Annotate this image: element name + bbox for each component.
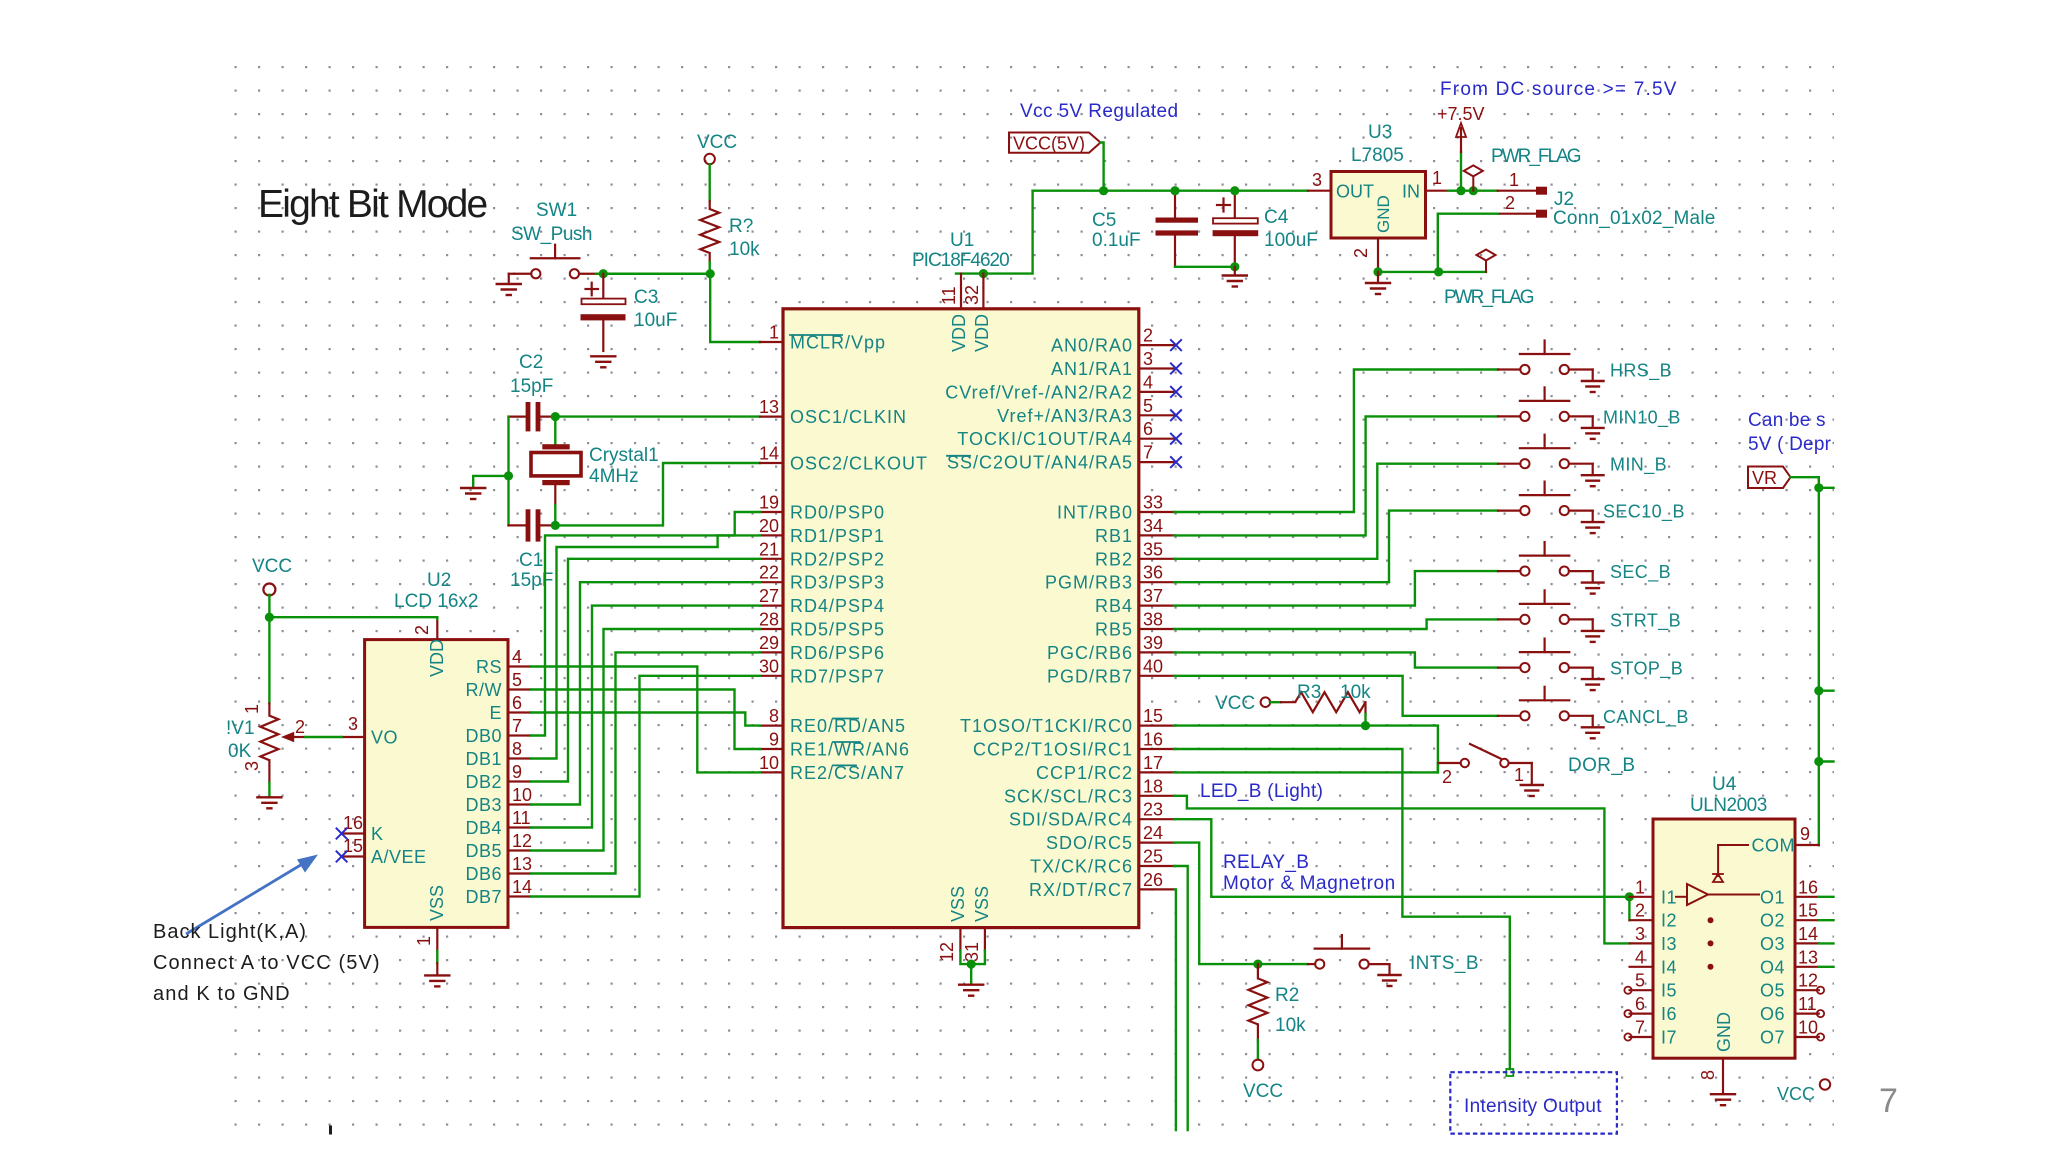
svg-text:13: 13	[512, 854, 532, 874]
U1 pin name RD7/PSP7	[790, 666, 885, 686]
svg-text:SW_Push: SW_Push	[511, 224, 592, 245]
svg-text:0.1uF: 0.1uF	[1092, 230, 1141, 251]
svg-text:Crystal1: Crystal1	[589, 445, 659, 466]
button MIN10_B	[1498, 387, 1604, 439]
svg-text:C2: C2	[519, 352, 543, 373]
svg-text:R3: R3	[1297, 682, 1321, 703]
svg-text:RD5/PSP5: RD5/PSP5	[790, 620, 885, 640]
U4 pin name O6	[1760, 1004, 1785, 1024]
svg-text:and K to GND: and K to GND	[153, 983, 291, 1005]
U1 pin name AN0/RA0	[1051, 336, 1133, 356]
U3 pin 3 OUT	[1308, 170, 1331, 191]
svg-text:15: 15	[1143, 706, 1163, 726]
svg-text:36: 36	[1143, 563, 1163, 583]
svg-text:RS: RS	[476, 657, 502, 677]
label 15pF C2	[510, 376, 553, 397]
svg-text:CCP2/T1OSI/RC1: CCP2/T1OSI/RC1	[973, 740, 1133, 760]
svg-text:VSS: VSS	[948, 886, 968, 922]
power symbol +7.5V	[1437, 104, 1485, 191]
U4 pin 12 O5	[1795, 971, 1819, 991]
stray mark	[329, 1126, 332, 1135]
svg-text:SDO/RC5: SDO/RC5	[1046, 833, 1133, 853]
label Motor & Magnetron	[1223, 873, 1396, 894]
svg-text:U2: U2	[427, 570, 451, 591]
ground below U4	[1711, 1094, 1735, 1105]
svg-text:CANCL_B: CANCL_B	[1603, 707, 1689, 728]
ground below C4	[1223, 267, 1247, 287]
wire junction to MCLR pin1	[710, 274, 760, 342]
U1 pin 16 CCP2/T1OSI/RC1	[1139, 730, 1175, 750]
junction C4 top	[1230, 186, 1239, 195]
U3 pin name OUT	[1336, 182, 1374, 202]
svg-text:VSS: VSS	[972, 886, 992, 922]
svg-text:RD1/PSP1: RD1/PSP1	[790, 526, 885, 546]
U1 pin name VSS a	[948, 886, 968, 922]
svg-text:DB3: DB3	[465, 795, 502, 815]
wire I1 to I2	[1628, 897, 1630, 920]
U1 pin 25 TX/CK/RC6	[1139, 847, 1175, 867]
ground below U1	[959, 985, 983, 996]
svg-text:4MHz: 4MHz	[589, 466, 639, 487]
U1 pin name VSS b	[972, 886, 992, 922]
wire pin 34 to MIN10_B	[1174, 416, 1498, 535]
U2 pin name DB4	[465, 818, 502, 838]
svg-text:14: 14	[1798, 924, 1818, 944]
page number	[1879, 1082, 1898, 1120]
svg-text:PGD/RB7: PGD/RB7	[1047, 666, 1133, 686]
junction gnd row	[1434, 267, 1443, 276]
U1 pin 37 RB4	[1139, 586, 1175, 606]
DOR_B pin 2 number	[1442, 767, 1452, 787]
svg-text:R2: R2	[1275, 985, 1299, 1006]
svg-text:28: 28	[759, 610, 779, 630]
wire pin16 to intensity output	[1174, 749, 1513, 1076]
open circle pin 10	[1817, 1033, 1824, 1040]
no-connect X pin 3	[1170, 363, 1182, 375]
U1 pin name RD5/PSP5	[790, 620, 885, 640]
resistor R2	[1248, 964, 1267, 1040]
svg-text:30: 30	[759, 656, 779, 676]
RV1 pin 2 number	[295, 717, 305, 737]
label DOR_B	[1568, 755, 1635, 776]
wire IN pin to J2 pin1	[1448, 189, 1498, 191]
svg-text:20: 20	[759, 516, 779, 536]
wire output O4	[1819, 966, 1834, 968]
svg-text:C4: C4	[1264, 207, 1289, 228]
U1 pin 23 SDI/SDA/RC4	[1139, 800, 1175, 820]
capacitor C2	[509, 402, 556, 431]
svg-text:SCK/SCL/RC3: SCK/SCL/RC3	[1004, 786, 1133, 806]
label 10uF	[634, 310, 677, 331]
svg-text:3: 3	[242, 761, 262, 771]
U3 pin name IN	[1402, 182, 1420, 202]
button STRT_B	[1498, 590, 1604, 642]
svg-text:2: 2	[1442, 767, 1452, 787]
annotation text line3	[153, 983, 291, 1005]
svg-text:TX/CK/RC6: TX/CK/RC6	[1030, 857, 1133, 877]
svg-text:12: 12	[937, 942, 957, 962]
svg-text:DOR_B: DOR_B	[1568, 755, 1635, 776]
junction C1	[551, 521, 560, 530]
svg-text:9: 9	[769, 730, 779, 750]
ground below U3	[1366, 272, 1390, 294]
U2 pin name K	[371, 824, 383, 844]
svg-text:1: 1	[769, 323, 779, 343]
junction C2	[551, 412, 560, 421]
label 10K	[228, 741, 252, 762]
svg-text:U3: U3	[1368, 122, 1392, 143]
U1 pin 17 CCP1/RC2	[1139, 753, 1175, 773]
U1 pin name RB1	[1095, 526, 1133, 546]
svg-text:3: 3	[1143, 349, 1153, 369]
U4 pin name O3	[1760, 934, 1785, 954]
svg-text:1: 1	[1514, 765, 1524, 785]
no-connect X pin 5	[1170, 410, 1182, 422]
svg-text:R/W: R/W	[466, 680, 503, 700]
svg-text:MIN_B: MIN_B	[1610, 455, 1667, 476]
wire J2 pin2 to gnd row	[1378, 214, 1498, 272]
U2 pin name DB5	[465, 841, 502, 861]
U2 pin name RS	[476, 657, 502, 677]
label PWR_FLAG 2	[1444, 287, 1534, 308]
U1 pin 9 RE1/WR/AN6	[760, 730, 783, 750]
overline RD pin8	[833, 718, 858, 720]
svg-text:COM: COM	[1752, 836, 1796, 856]
svg-text:16: 16	[1143, 730, 1163, 750]
wire pin 36 to SEC10_B	[1174, 511, 1498, 583]
svg-text:VCC: VCC	[1215, 693, 1255, 714]
svg-text:RB2: RB2	[1095, 549, 1133, 569]
svg-text:RB5: RB5	[1095, 620, 1133, 640]
label SW_Push	[511, 224, 592, 245]
svg-text:RD2/PSP2: RD2/PSP2	[790, 549, 885, 569]
U4 internal inverter	[1676, 884, 1759, 905]
svg-text:10k: 10k	[1340, 682, 1371, 703]
wire DB4 to pin27	[531, 606, 760, 828]
U4 pin 15 O2	[1795, 901, 1819, 921]
U1 pin 21 RD2/PSP2	[759, 539, 783, 559]
svg-text:SW1: SW1	[536, 200, 577, 221]
lcd U2 body	[365, 640, 508, 928]
svg-text:T1OSO/T1CKI/RC0: T1OSO/T1CKI/RC0	[960, 716, 1133, 736]
svg-text:VDD: VDD	[949, 314, 969, 352]
svg-text:I3: I3	[1661, 934, 1677, 954]
U1 pin name OSC2/CLKOUT	[790, 454, 928, 474]
global label VR	[1748, 467, 1791, 489]
RV1 pin 1 number	[242, 704, 262, 714]
U1 pin name RD0/PSP0	[790, 503, 885, 523]
open circle pin 5	[1624, 987, 1631, 994]
U2 pin name DB7	[465, 887, 502, 907]
svg-text:29: 29	[759, 633, 779, 653]
label INTS_B	[1410, 953, 1479, 974]
svg-text:LCD 16x2: LCD 16x2	[394, 591, 479, 612]
wire E to pin8	[531, 713, 760, 726]
junction at VDD pin32	[979, 269, 988, 278]
svg-text:TOCKI/C1OUT/RA4: TOCKI/C1OUT/RA4	[957, 429, 1133, 449]
connector J2 pin 1	[1498, 170, 1547, 195]
U4 pin name O1	[1760, 887, 1785, 907]
svg-text:25: 25	[1143, 847, 1163, 867]
svg-text:5: 5	[512, 670, 522, 690]
svg-text:34: 34	[1143, 516, 1163, 536]
svg-text:Eight Bit Mode: Eight Bit Mode	[258, 183, 487, 226]
wire VCC to R3	[1270, 701, 1281, 703]
ground below U2	[425, 975, 449, 986]
wire wiper to VO	[305, 736, 342, 738]
svg-text:7: 7	[1143, 443, 1153, 463]
U2 pin 15 A/VEE	[342, 836, 365, 857]
U1 pin name RB5	[1095, 620, 1133, 640]
U2 pin 3 VO	[342, 714, 365, 737]
svg-text:PWR_FLAG: PWR_FLAG	[1491, 146, 1581, 167]
U1 pin name RD2/PSP2	[790, 549, 885, 569]
power symbol VCC R3	[1215, 693, 1270, 714]
label STOP_B	[1610, 659, 1683, 680]
U4 pin 5 I5	[1630, 971, 1653, 991]
resistor R?	[700, 201, 719, 262]
svg-text:2: 2	[1143, 326, 1153, 346]
capacitor C4	[1213, 191, 1259, 267]
junction I1	[1625, 892, 1634, 901]
label 0.1uF	[1092, 230, 1141, 251]
svg-text:9: 9	[1800, 824, 1810, 844]
U1 pin 20 RD1/PSP1	[759, 516, 783, 536]
annotation text line2	[153, 952, 381, 974]
svg-text:3: 3	[348, 714, 358, 734]
wire pin18 to I3	[1174, 796, 1630, 944]
U1 pin 6 TOCKI/C1OUT/RA4	[1139, 419, 1175, 439]
U1 pin 13 OSC1/CLKIN	[759, 397, 783, 417]
svg-text:Motor & Magnetron: Motor & Magnetron	[1223, 873, 1396, 894]
svg-text:OSC1/CLKIN: OSC1/CLKIN	[790, 407, 907, 427]
svg-text:O1: O1	[1760, 887, 1785, 907]
U4 internal dot I3	[1708, 940, 1714, 946]
svg-text:11: 11	[1798, 994, 1817, 1014]
svg-text:J2: J2	[1554, 189, 1574, 210]
wire pin 37 to SEC_B	[1174, 571, 1498, 606]
U2 pin name VSS	[427, 885, 447, 921]
svg-text:PGC/RB6: PGC/RB6	[1047, 643, 1133, 663]
svg-text:VO: VO	[371, 728, 398, 748]
junction crystal left	[504, 471, 513, 480]
svg-text:R?: R?	[729, 216, 753, 237]
wire DB6 to pin29	[531, 652, 760, 873]
U4 pin 8 GND	[1698, 1058, 1723, 1093]
wire pin 40 to CANCL_B	[1174, 676, 1498, 716]
svg-text:2: 2	[1635, 901, 1645, 921]
U1 pin name RD1/PSP1	[790, 526, 885, 546]
junction C4 bottom	[1230, 262, 1239, 271]
svg-text:DB6: DB6	[465, 864, 502, 884]
svg-text:1: 1	[1635, 877, 1645, 897]
U1 pin name Vref+/AN3/RA3	[997, 406, 1133, 426]
svg-text:STRT_B: STRT_B	[1610, 610, 1681, 631]
wire gnd row to pwr flag 2	[1439, 271, 1486, 273]
overline SS pin7	[947, 455, 970, 457]
U1 pin 35 RB2	[1139, 539, 1175, 559]
open circle pin 7	[1624, 1033, 1631, 1040]
label PWR_FLAG 1	[1491, 146, 1581, 167]
svg-text:Can be s: Can be s	[1748, 410, 1826, 431]
U1 pin 29 RD6/PSP6	[759, 633, 783, 653]
svg-text:OSC2/CLKOUT: OSC2/CLKOUT	[790, 454, 928, 474]
U1 pin 22 RD3/PSP3	[759, 563, 783, 583]
svg-text:SEC_B: SEC_B	[1610, 562, 1671, 583]
svg-text:I6: I6	[1661, 1004, 1677, 1024]
U2 pin name DB1	[465, 749, 502, 769]
svg-text:VR: VR	[1752, 468, 1777, 488]
wire pin23 to I1	[1174, 819, 1629, 897]
svg-text:I4: I4	[1661, 957, 1677, 977]
junction C5 top	[1170, 186, 1179, 195]
U1 pin 18 SCK/SCL/RC3	[1139, 776, 1175, 796]
svg-text:10k: 10k	[729, 239, 760, 260]
label U1	[950, 230, 974, 251]
svg-text:RB1: RB1	[1095, 526, 1133, 546]
connector J2 pin 2	[1498, 193, 1547, 218]
ground at crystal	[461, 488, 485, 499]
svg-text:18: 18	[1143, 776, 1163, 796]
label From DC source	[1440, 79, 1678, 100]
U1 pin name RD3/PSP3	[790, 573, 885, 593]
junction at rail/VCC(5V)	[1099, 186, 1108, 195]
U2 pin name DB2	[465, 772, 502, 792]
button SEC_B	[1498, 542, 1604, 594]
U2 pin 5 R/W	[508, 670, 531, 690]
wire VR to vertical bus	[1791, 477, 1819, 845]
global label VCC(5V)	[1009, 133, 1101, 154]
svg-text:PWR_FLAG: PWR_FLAG	[1444, 287, 1534, 308]
wire pin24 to INTS_B	[1174, 843, 1308, 965]
label U2	[427, 570, 451, 591]
open circle pin 11	[1817, 1010, 1824, 1017]
svg-text:11: 11	[512, 808, 531, 828]
svg-text:2: 2	[295, 717, 305, 737]
label ULN2003	[1690, 795, 1767, 816]
svg-text:I5: I5	[1661, 981, 1677, 1001]
no-connect X pin 2	[1170, 339, 1182, 351]
button STOP_B	[1498, 639, 1604, 691]
U2 pin 13 DB6	[508, 854, 532, 874]
svg-text:VDD: VDD	[427, 639, 447, 677]
U1 pin 1 MCLR/Vpp	[760, 323, 783, 343]
svg-text:CCP1/RC2: CCP1/RC2	[1036, 763, 1133, 783]
power symbol VCC pot	[252, 556, 292, 596]
svg-text:VCC: VCC	[1243, 1081, 1283, 1102]
svg-text:O7: O7	[1760, 1028, 1785, 1048]
junction VR node	[1814, 483, 1823, 492]
RV1 pin 3 number	[242, 761, 262, 771]
wire pin 38 to STRT_B	[1174, 619, 1498, 629]
wire DB0 to pin19	[531, 512, 760, 736]
U1 pin 33 INT/RB0	[1139, 493, 1175, 513]
U3 pin name GND	[1374, 195, 1393, 233]
svg-text:Connect A to VCC (5V): Connect A to VCC (5V)	[153, 952, 381, 974]
U1 pin name PGM/RB3	[1045, 573, 1133, 593]
U1 pin 31 VSS	[962, 928, 985, 962]
switch DOR_B	[1438, 744, 1542, 796]
U2 pin 6 E	[508, 693, 531, 713]
svg-text:10: 10	[1798, 1018, 1818, 1038]
svg-text:10: 10	[759, 753, 779, 773]
U1 pin name RB4	[1095, 596, 1133, 616]
svg-text:From DC source >= 7.5V: From DC source >= 7.5V	[1440, 79, 1678, 100]
wire R/W to pin9	[531, 690, 760, 750]
U4 pin name I4	[1661, 957, 1677, 977]
svg-text:12: 12	[512, 831, 532, 851]
U4 pin name I3	[1661, 934, 1677, 954]
power symbol VCC top	[697, 132, 737, 164]
wire pin17 row	[1174, 763, 1438, 772]
U1 pin 32 VDD	[962, 274, 983, 309]
open circle pin 12	[1817, 987, 1824, 994]
svg-text:39: 39	[1143, 633, 1163, 653]
svg-text:4: 4	[1635, 947, 1645, 967]
wire VSS to ground	[970, 964, 972, 983]
U4 pin name O5	[1760, 981, 1785, 1001]
no-connect X pin 16	[336, 828, 348, 840]
svg-text:13: 13	[759, 397, 779, 417]
svg-text:CVref/Vref-/AN2/RA2: CVref/Vref-/AN2/RA2	[945, 382, 1133, 402]
U2 pin name A/VEE	[371, 847, 427, 867]
label C5	[1092, 210, 1116, 231]
U1 pin 38 RB5	[1139, 610, 1175, 630]
svg-text:SEC10_B: SEC10_B	[1603, 502, 1685, 523]
wire R3 to pin15 row	[1364, 714, 1366, 726]
U1 pin name AN1/RA1	[1051, 359, 1133, 379]
U2 pin 7 DB0	[508, 716, 531, 736]
U1 pin 7 SS/C2OUT/AN4/RA5	[1139, 443, 1175, 463]
svg-text:O3: O3	[1760, 934, 1785, 954]
svg-text:3: 3	[1635, 924, 1645, 944]
svg-text:10: 10	[512, 785, 532, 805]
svg-text:3: 3	[1312, 170, 1322, 190]
button MIN_B	[1498, 435, 1604, 487]
title text	[258, 183, 487, 226]
svg-text:100uF: 100uF	[1264, 230, 1318, 251]
svg-text:5V ( Depr: 5V ( Depr	[1748, 434, 1832, 455]
U4 pin name I6	[1661, 1004, 1677, 1024]
svg-text:2: 2	[1351, 248, 1371, 258]
U4 pin name O7	[1760, 1028, 1785, 1048]
svg-text:Vcc 5V Regulated: Vcc 5V Regulated	[1020, 101, 1179, 122]
svg-text:LED_B (Light): LED_B (Light)	[1200, 781, 1323, 802]
U4 pin 4 I4	[1630, 947, 1653, 967]
regulator U3 L7805 body	[1331, 172, 1426, 239]
junction VSS	[967, 960, 976, 969]
svg-text:SDI/SDA/RC4: SDI/SDA/RC4	[1009, 810, 1133, 830]
svg-text:RB4: RB4	[1095, 596, 1133, 616]
U1 pin 26 RX/DT/RC7	[1139, 870, 1175, 890]
U1 pin 24 SDO/RC5	[1139, 823, 1175, 843]
U4 internal dot I4	[1708, 964, 1714, 970]
svg-text:26: 26	[1143, 870, 1163, 890]
svg-text:DB4: DB4	[465, 818, 502, 838]
svg-text:GND: GND	[1374, 195, 1393, 233]
power flag 2	[1477, 250, 1496, 272]
svg-text:13: 13	[1798, 947, 1818, 967]
svg-text:8: 8	[512, 739, 522, 759]
U1 pin 30 RD7/PSP7	[759, 656, 783, 676]
wire SW1 to R? junction	[596, 273, 710, 275]
svg-text:17: 17	[1143, 753, 1163, 773]
U1 pin 34 RB1	[1139, 516, 1175, 536]
svg-text:I1: I1	[1661, 887, 1677, 907]
U1 pin 10 RE2/CS/AN7	[759, 753, 783, 773]
svg-text:O2: O2	[1760, 911, 1785, 931]
U2 pin 11 DB4	[508, 808, 531, 828]
